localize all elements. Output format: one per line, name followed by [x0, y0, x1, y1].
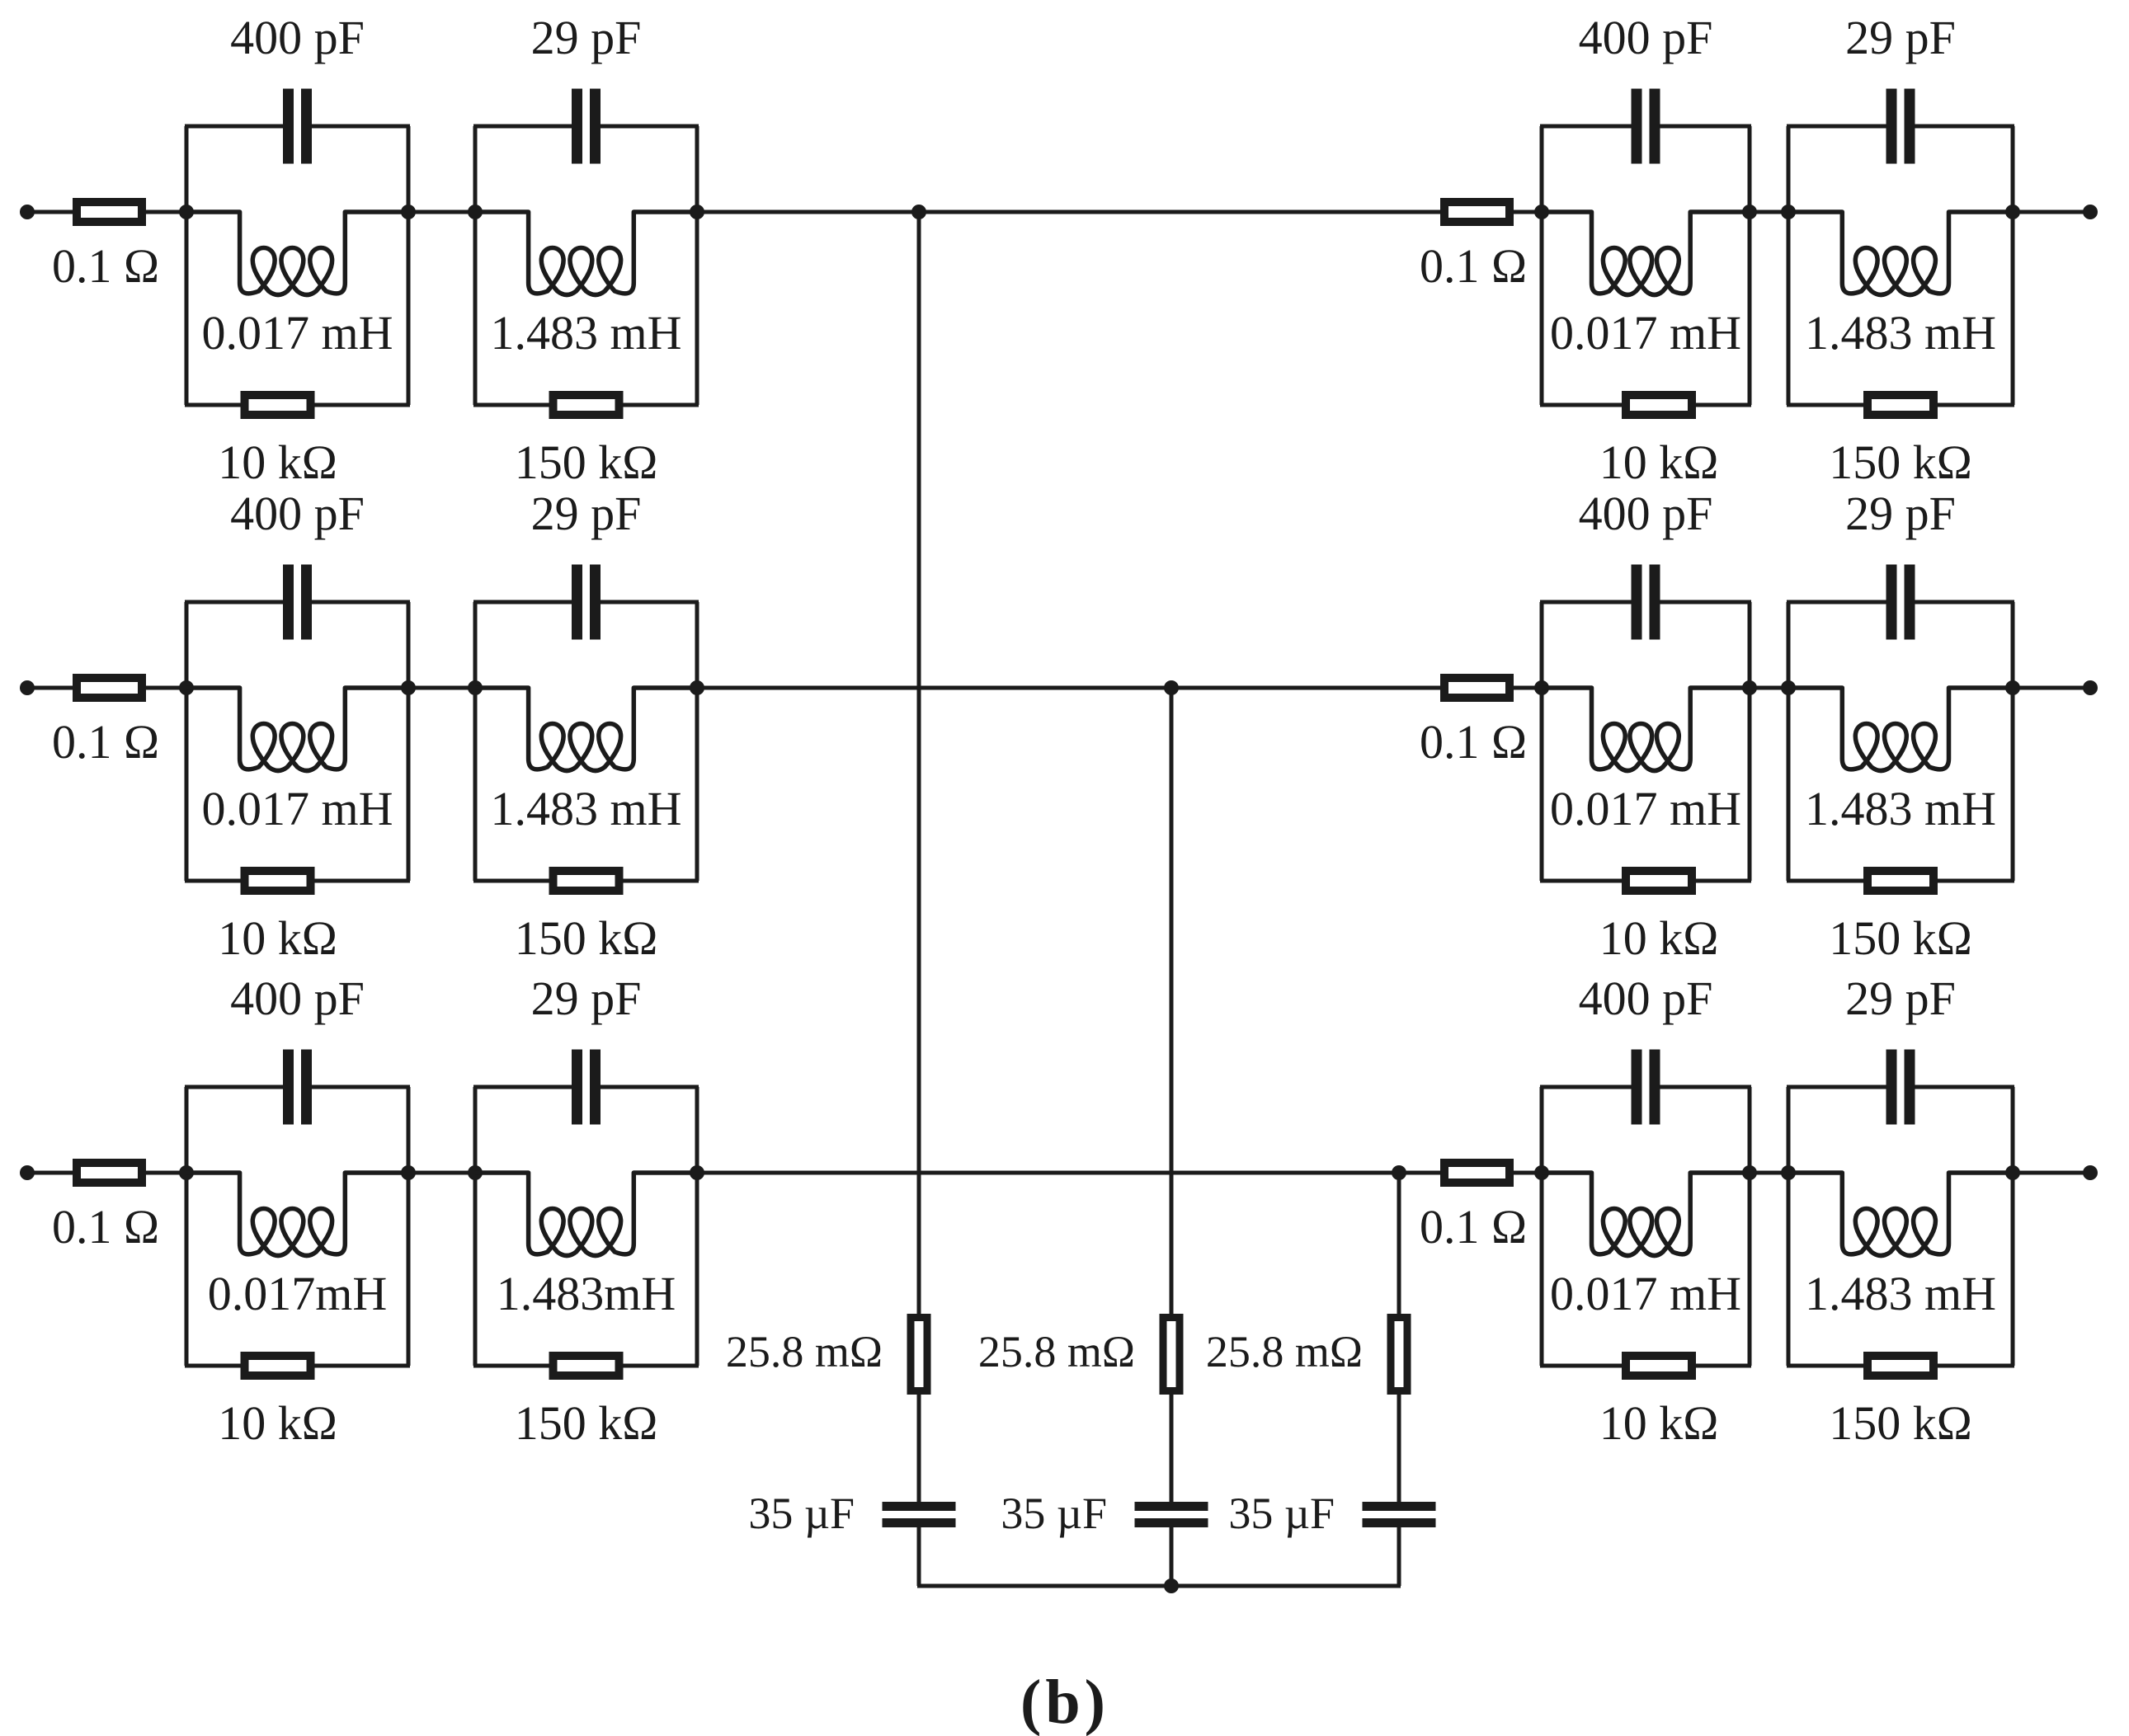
wire phase 3 left input — [27, 1171, 78, 1175]
wire phase 1 right output — [2013, 210, 2090, 214]
resistor 150 k&#937; (phase 3 block 2) — [553, 1356, 619, 1376]
resistor 10 k&#937; (phase 1 block 3) — [1626, 395, 1692, 415]
inductor 1.483 mH (phase 2 block 2) — [475, 688, 697, 771]
svg-text:400 pF: 400 pF — [230, 11, 365, 64]
junction node phase 3 block 4 input — [1781, 1165, 1796, 1180]
svg-text:10 kΩ: 10 kΩ — [218, 1396, 337, 1450]
svg-text:150 kΩ: 150 kΩ — [515, 435, 658, 489]
wire phase 2 middle bus — [697, 686, 1444, 690]
junction node phase 1 / block 1 input — [179, 205, 194, 219]
junction node phase 2 block 2 input — [468, 680, 483, 695]
junction node phase 2 block 2 output — [690, 680, 704, 695]
capacitor 400 pF (phase 2 block 1) — [283, 565, 312, 640]
resistor 10 k&#937; (phase 3 block 1) — [245, 1356, 311, 1376]
resistor 25.8 m&#937; (branch 2) — [1163, 1318, 1180, 1391]
wire phase 3 between block 1 and block 2 — [408, 1171, 475, 1175]
svg-text:35 µF: 35 µF — [1228, 1489, 1335, 1538]
svg-text:0.017 mH: 0.017 mH — [1550, 782, 1741, 835]
resistor 0.1 &#937; (phase 1 left) — [77, 202, 142, 222]
inductor 1.483mH (phase 3 block 2) — [475, 1173, 697, 1256]
junction node phase 3 block 3 input — [1534, 1165, 1549, 1180]
terminal node phase 1 left — [20, 205, 35, 219]
wire bottom bus (neutral) — [917, 1584, 1401, 1588]
capacitor 400 pF (phase 3 block 1) — [283, 1050, 312, 1125]
junction node phase 2 block 3 input — [1534, 680, 1549, 695]
wire phase 3 between block 3 and block 4 — [1750, 1171, 1788, 1175]
svg-text:1.483 mH: 1.483 mH — [1805, 782, 1996, 835]
junction node phase 3 / block 1 input — [179, 1165, 194, 1180]
capacitor 35 &#181;F (branch 3) — [1363, 1502, 1436, 1527]
inductor 0.017 mH (phase 2 block 3) — [1542, 688, 1750, 771]
wire phase 3 middle bus — [697, 1171, 1444, 1175]
junction node phase 3 block 1 output — [401, 1165, 416, 1180]
resistor 150 k&#937; (phase 2 block 2) — [553, 871, 619, 891]
inductor 0.017 mH (phase 2 block 1) — [186, 688, 408, 771]
wire frame of RLC block phase 1 block 4 — [1787, 126, 2014, 405]
svg-text:400 pF: 400 pF — [1579, 972, 1713, 1025]
svg-text:29 pF: 29 pF — [531, 11, 642, 64]
terminal node phase 3 right — [2083, 1165, 2098, 1180]
wire frame of RLC block phase 2 block 2 — [473, 602, 699, 881]
capacitor 35 &#181;F (branch 2) — [1135, 1502, 1208, 1527]
terminal node phase 2 right — [2083, 680, 2098, 695]
svg-text:35 µF: 35 µF — [748, 1489, 855, 1538]
svg-text:0.017 mH: 0.017 mH — [1550, 1267, 1741, 1320]
capacitor 400 pF (phase 3 block 3) — [1632, 1050, 1660, 1125]
resistor 150 k&#937; (phase 2 block 4) — [1868, 871, 1934, 891]
terminal node phase 2 left — [20, 680, 35, 695]
capacitor 400 pF (phase 1 block 1) — [283, 89, 312, 164]
wire phase 1 between block 1 and block 2 — [408, 210, 475, 214]
wire frame of RLC block phase 3 block 4 — [1787, 1087, 2014, 1366]
capacitor 35 &#181;F (branch 1) — [883, 1502, 956, 1527]
svg-text:29 pF: 29 pF — [1845, 11, 1956, 64]
terminal node phase 3 left — [20, 1165, 35, 1180]
resistor 0.1 &#937; (phase 2 right) — [1444, 678, 1510, 698]
junction node phase 2 block 4 input — [1781, 680, 1796, 695]
inductor 0.017 mH (phase 1 block 1) — [186, 212, 408, 295]
resistor 150 k&#937; (phase 1 block 4) — [1868, 395, 1934, 415]
junction node phase 2 / block 1 input — [179, 680, 194, 695]
junction node phase 1 shunt tap — [911, 205, 926, 219]
resistor 25.8 m&#937; (branch 3) — [1391, 1318, 1407, 1391]
junction node phase 2 block 3 output — [1742, 680, 1757, 695]
svg-text:0.017 mH: 0.017 mH — [202, 782, 393, 835]
svg-text:29 pF: 29 pF — [531, 487, 642, 540]
svg-text:25.8 mΩ: 25.8 mΩ — [726, 1327, 883, 1376]
junction node phase 3 block 2 output — [690, 1165, 704, 1180]
svg-text:1.483mH: 1.483mH — [497, 1267, 676, 1320]
junction node phase 1 block 1 output — [401, 205, 416, 219]
junction node phase 2 shunt tap — [1164, 680, 1179, 695]
resistor 0.1 &#937; (phase 2 left) — [77, 678, 142, 698]
svg-text:25.8 mΩ: 25.8 mΩ — [978, 1327, 1135, 1376]
resistor 150 k&#937; (phase 1 block 2) — [553, 395, 619, 415]
wire frame of RLC block phase 1 block 1 — [185, 126, 410, 405]
wire phase 2 between block 1 and block 2 — [408, 686, 475, 690]
wire phase 2 right, resistor to block 3 — [1510, 686, 1545, 690]
wire phase 1 middle bus — [697, 210, 1444, 214]
resistor 0.1 &#937; (phase 3 left) — [77, 1163, 142, 1183]
wire frame of RLC block phase 2 block 3 — [1540, 602, 1751, 881]
terminal node phase 1 right — [2083, 205, 2098, 219]
junction node phase 1 block 3 input — [1534, 205, 1549, 219]
wire frame of RLC block phase 3 block 3 — [1540, 1087, 1751, 1366]
svg-text:1.483 mH: 1.483 mH — [491, 782, 682, 835]
svg-text:150 kΩ: 150 kΩ — [1829, 911, 1972, 965]
wire frame of RLC block phase 2 block 1 — [185, 602, 410, 881]
wire phase 3 right output — [2013, 1171, 2090, 1175]
wire shunt branch 1 vertical upper — [917, 212, 921, 1317]
svg-text:29 pF: 29 pF — [1845, 972, 1956, 1025]
wire phase 1 left, resistor to block — [142, 210, 190, 214]
capacitor 29 pF (phase 3 block 4) — [1886, 1050, 1915, 1125]
svg-text:29 pF: 29 pF — [1845, 487, 1956, 540]
junction node phase 1 block 4 output — [2005, 205, 2020, 219]
resistor 0.1 &#937; (phase 1 right) — [1444, 202, 1510, 222]
junction node phase 1 block 2 input — [468, 205, 483, 219]
svg-text:10 kΩ: 10 kΩ — [218, 435, 337, 489]
wire shunt branch 3 vertical upper — [1397, 1173, 1401, 1317]
wire frame of RLC block phase 1 block 2 — [473, 126, 699, 405]
svg-text:35 µF: 35 µF — [1001, 1489, 1107, 1538]
wire phase 1 left input — [27, 210, 78, 214]
svg-text:0.1 Ω: 0.1 Ω — [52, 1200, 159, 1254]
wire frame of RLC block phase 3 block 1 — [185, 1087, 410, 1366]
inductor 0.017mH (phase 3 block 1) — [186, 1173, 408, 1256]
wire shunt branch 1 vertical lower — [917, 1527, 921, 1587]
svg-text:0.1 Ω: 0.1 Ω — [52, 239, 159, 293]
wire phase 3 right, resistor to block 3 — [1510, 1171, 1545, 1175]
svg-text:0.017mH: 0.017mH — [208, 1267, 388, 1320]
capacitor 29 pF (phase 1 block 4) — [1886, 89, 1915, 164]
wire phase 1 right, resistor to block 3 — [1510, 210, 1545, 214]
svg-text:150 kΩ: 150 kΩ — [515, 911, 658, 965]
junction node phase 1 block 3 output — [1742, 205, 1757, 219]
junction node bottom bus center — [1164, 1578, 1179, 1593]
inductor 1.483 mH (phase 3 block 4) — [1788, 1173, 2013, 1256]
svg-text:150 kΩ: 150 kΩ — [1829, 1396, 1972, 1450]
inductor 0.017 mH (phase 1 block 3) — [1542, 212, 1750, 295]
svg-text:1.483 mH: 1.483 mH — [1805, 306, 1996, 360]
resistor 150 k&#937; (phase 3 block 4) — [1868, 1356, 1934, 1376]
junction node phase 1 block 4 input — [1781, 205, 1796, 219]
wire frame of RLC block phase 2 block 4 — [1787, 602, 2014, 881]
resistor 25.8 m&#937; (branch 1) — [911, 1318, 927, 1391]
wire shunt branch 3 vertical lower — [1397, 1527, 1401, 1587]
svg-text:10 kΩ: 10 kΩ — [218, 911, 337, 965]
inductor 1.483 mH (phase 1 block 4) — [1788, 212, 2013, 295]
svg-text:400 pF: 400 pF — [1579, 11, 1713, 64]
svg-text:0.1 Ω: 0.1 Ω — [1420, 239, 1527, 293]
wire shunt branch 2 vertical upper — [1170, 688, 1174, 1317]
inductor 1.483 mH (phase 2 block 4) — [1788, 688, 2013, 771]
inductor 1.483 mH (phase 1 block 2) — [475, 212, 697, 295]
junction node phase 3 block 3 output — [1742, 1165, 1757, 1180]
wire phase 1 between block 3 and block 4 — [1750, 210, 1788, 214]
capacitor 400 pF (phase 2 block 3) — [1632, 565, 1660, 640]
wire phase 3 left, resistor to block — [142, 1171, 190, 1175]
wire frame of RLC block phase 1 block 3 — [1540, 126, 1751, 405]
capacitor 29 pF (phase 2 block 4) — [1886, 565, 1915, 640]
resistor 10 k&#937; (phase 3 block 3) — [1626, 1356, 1692, 1376]
svg-text:10 kΩ: 10 kΩ — [1599, 435, 1719, 489]
svg-text:400 pF: 400 pF — [230, 972, 365, 1025]
svg-text:0.017 mH: 0.017 mH — [202, 306, 393, 360]
svg-text:1.483 mH: 1.483 mH — [1805, 1267, 1996, 1320]
svg-text:0.017 mH: 0.017 mH — [1550, 306, 1741, 360]
inductor 0.017 mH (phase 3 block 3) — [1542, 1173, 1750, 1256]
wire frame of RLC block phase 3 block 2 — [473, 1087, 699, 1366]
resistor 0.1 &#937; (phase 3 right) — [1444, 1163, 1510, 1183]
junction node phase 3 shunt tap — [1392, 1165, 1406, 1180]
capacitor 29 pF (phase 3 block 2) — [572, 1050, 601, 1125]
svg-text:10 kΩ: 10 kΩ — [1599, 1396, 1719, 1450]
wire shunt branch 2 vertical lower — [1170, 1527, 1174, 1587]
junction node phase 2 block 1 output — [401, 680, 416, 695]
svg-text:0.1 Ω: 0.1 Ω — [1420, 1200, 1527, 1254]
svg-text:150 kΩ: 150 kΩ — [515, 1396, 658, 1450]
svg-text:25.8 mΩ: 25.8 mΩ — [1206, 1327, 1363, 1376]
wire shunt branch 2 vertical middle — [1170, 1391, 1174, 1503]
capacitor 29 pF (phase 2 block 2) — [572, 565, 601, 640]
wire phase 2 between block 3 and block 4 — [1750, 686, 1788, 690]
resistor 10 k&#937; (phase 2 block 1) — [245, 871, 311, 891]
junction node phase 3 block 2 input — [468, 1165, 483, 1180]
junction node phase 1 block 2 output — [690, 205, 704, 219]
wire phase 2 right output — [2013, 686, 2090, 690]
junction node phase 3 block 4 output — [2005, 1165, 2020, 1180]
junction node phase 2 block 4 output — [2005, 680, 2020, 695]
svg-text:400 pF: 400 pF — [1579, 487, 1713, 540]
wire shunt branch 1 vertical middle — [917, 1391, 921, 1503]
svg-text:0.1 Ω: 0.1 Ω — [52, 715, 159, 769]
capacitor 29 pF (phase 1 block 2) — [572, 89, 601, 164]
wire phase 2 left input — [27, 686, 78, 690]
wire shunt branch 3 vertical middle — [1397, 1391, 1401, 1503]
resistor 10 k&#937; (phase 2 block 3) — [1626, 871, 1692, 891]
svg-text:1.483 mH: 1.483 mH — [491, 306, 682, 360]
svg-text:0.1 Ω: 0.1 Ω — [1420, 715, 1527, 769]
svg-text:150 kΩ: 150 kΩ — [1829, 435, 1972, 489]
resistor 10 k&#937; (phase 1 block 1) — [245, 395, 311, 415]
capacitor 400 pF (phase 1 block 3) — [1632, 89, 1660, 164]
wire phase 2 left, resistor to block — [142, 686, 190, 690]
svg-text:29 pF: 29 pF — [531, 972, 642, 1025]
svg-text:10 kΩ: 10 kΩ — [1599, 911, 1719, 965]
svg-text:400 pF: 400 pF — [230, 487, 365, 540]
svg-text:(b): (b) — [1020, 1668, 1109, 1736]
